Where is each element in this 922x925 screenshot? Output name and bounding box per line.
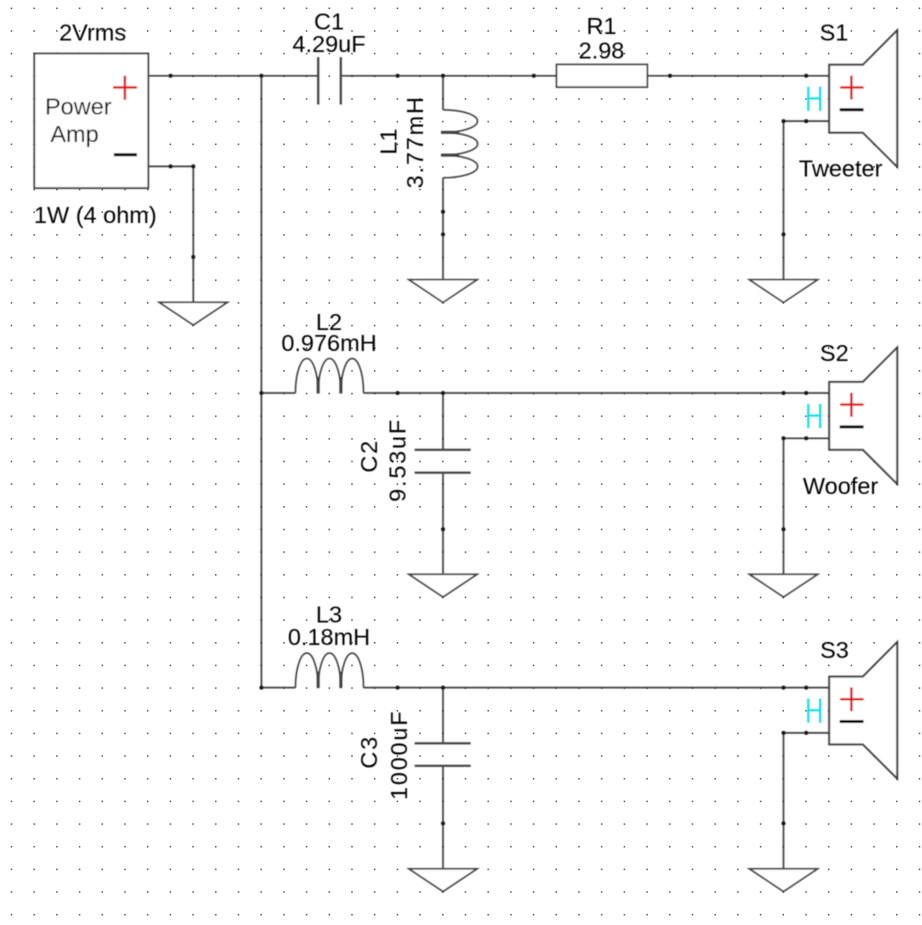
svg-text:2.98: 2.98 (579, 37, 625, 63)
svg-text:S3: S3 (820, 637, 849, 663)
svg-text:0.976mH: 0.976mH (281, 330, 376, 356)
svg-text:C3: C3 (356, 735, 382, 769)
svg-text:4.29uF: 4.29uF (292, 31, 365, 57)
svg-text:R1: R1 (586, 13, 616, 39)
svg-text:Power: Power (45, 94, 112, 120)
svg-text:9.53uF: 9.53uF (385, 418, 411, 502)
svg-text:1W (4 ohm): 1W (4 ohm) (34, 202, 157, 228)
svg-text:2Vrms: 2Vrms (59, 20, 126, 46)
svg-text:Amp: Amp (50, 121, 98, 147)
svg-text:S1: S1 (820, 19, 849, 45)
svg-text:1000uF: 1000uF (386, 710, 412, 801)
svg-text:Woofer: Woofer (803, 473, 878, 499)
svg-text:S2: S2 (820, 340, 849, 366)
svg-text:C2: C2 (356, 439, 382, 473)
svg-text:Tweeter: Tweeter (799, 156, 883, 182)
svg-text:L1: L1 (376, 128, 402, 154)
svg-text:3.77mH: 3.77mH (402, 95, 428, 188)
svg-text:0.18mH: 0.18mH (288, 624, 370, 650)
